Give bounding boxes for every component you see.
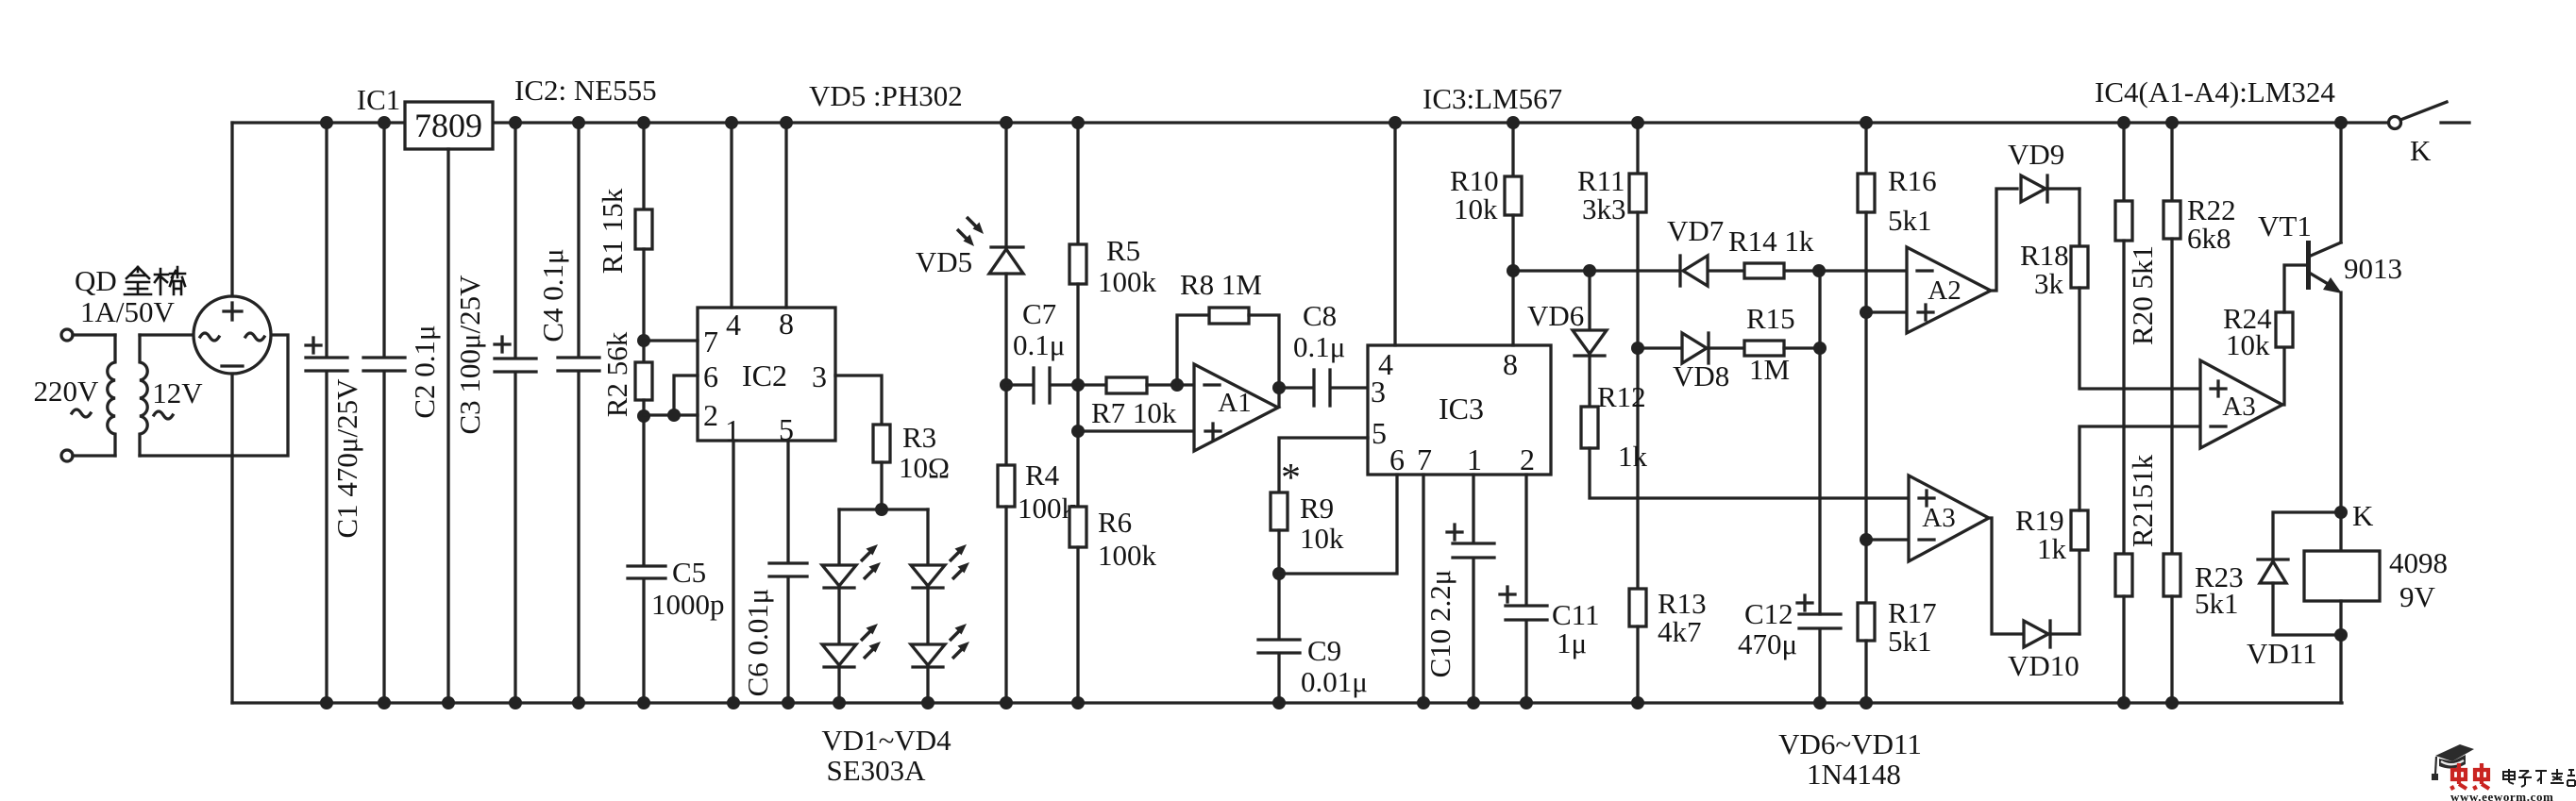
wire IC2 pin5 down: [786, 441, 789, 562]
LED VD2: [911, 509, 969, 588]
bridge tilde right: [245, 333, 264, 341]
node relay bottom: [2334, 628, 2348, 642]
IC3 LM567 box: [1368, 345, 1551, 476]
svg-text:C9: C9: [1307, 634, 1341, 667]
capacitor C1: [306, 116, 363, 709]
svg-text:7: 7: [1417, 442, 1432, 476]
svg-text:8: 8: [1503, 347, 1518, 381]
svg-text:0.1μ: 0.1μ: [1013, 328, 1065, 361]
wire A3 minus input: [1866, 538, 1909, 541]
svg-text:12V: 12V: [152, 376, 203, 409]
diode VD9: [2008, 138, 2079, 202]
watermark site name glyphs: [2503, 769, 2575, 787]
wire LED top bus: [839, 508, 928, 510]
svg-text:8: 8: [779, 307, 794, 341]
svg-text:R3: R3: [902, 421, 936, 454]
node pin2 pin6 tie: [667, 409, 681, 422]
svg-text:R2151k: R2151k: [2126, 454, 2159, 547]
node A3 minus ref: [1860, 533, 1873, 546]
svg-text:R12: R12: [1597, 380, 1646, 413]
svg-text:1μ: 1μ: [1557, 626, 1587, 659]
LED VD1: [822, 509, 881, 588]
capacitor C11 1u on pin2: [1500, 475, 1600, 709]
node R5 C7 R7: [1071, 378, 1085, 392]
resistor R14 1k: [1728, 225, 1814, 278]
node A1 output: [1272, 381, 1286, 394]
svg-text:10Ω: 10Ω: [899, 451, 950, 484]
svg-text:R8 1M: R8 1M: [1180, 268, 1262, 301]
svg-text:C8: C8: [1303, 299, 1337, 332]
wire IC3 pin6: [1279, 475, 1397, 574]
svg-text:R6: R6: [1098, 506, 1132, 539]
svg-text:3: 3: [812, 359, 827, 393]
svg-text:3: 3: [1371, 375, 1386, 409]
capacitor C9 0.01u: [1258, 634, 1368, 709]
resistor R8 1M feedback: [1177, 268, 1279, 407]
svg-text:IC4(A1-A4):LM324: IC4(A1-A4):LM324: [2095, 75, 2335, 108]
svg-text:R5: R5: [1106, 234, 1140, 267]
node A1 plus tap: [1071, 425, 1085, 438]
LED VD4: [911, 590, 969, 709]
svg-text:A1: A1: [1218, 388, 1251, 418]
wire IC2 pin4 to rail: [730, 123, 732, 308]
diode VD11 flyback: [2247, 512, 2341, 670]
svg-text:C4 0.1μ: C4 0.1μ: [536, 248, 569, 342]
svg-text:A3: A3: [1922, 503, 1955, 533]
wire terminal bottom to primary: [73, 454, 115, 457]
wire detector line (pin8 node to A2 minus): [1513, 269, 1679, 272]
resistor R10 10k: [1450, 116, 1522, 345]
svg-text:1: 1: [1467, 442, 1482, 476]
resistor R3 10ohm: [873, 421, 950, 509]
svg-text:7: 7: [703, 325, 718, 359]
svg-text:R4: R4: [1025, 459, 1060, 492]
svg-text:C7: C7: [1022, 297, 1056, 330]
svg-text:IC3:LM567: IC3:LM567: [1423, 82, 1562, 115]
svg-text:VD11: VD11: [2247, 637, 2317, 670]
node pin7 junction: [637, 334, 650, 347]
svg-text:2: 2: [703, 398, 718, 432]
transformer T primary winding: [108, 335, 115, 456]
photodiode VD5: [916, 116, 1023, 385]
tilde under 12V: [154, 411, 173, 419]
svg-text:1M: 1M: [1749, 353, 1790, 386]
resistor R13 4k7: [1629, 587, 1707, 709]
watermark chongchong red glyphs: [2451, 763, 2489, 790]
svg-text:C5: C5: [672, 556, 706, 589]
svg-text:9013: 9013: [2344, 252, 2402, 285]
wire IC3 pin7 to ground: [1422, 475, 1424, 703]
diode VD7: [1667, 214, 1724, 286]
diode VD10: [2008, 621, 2079, 682]
svg-text:4: 4: [726, 308, 741, 342]
svg-text:6: 6: [1389, 442, 1405, 476]
top supply rail: [232, 121, 2389, 124]
svg-text:7809: 7809: [414, 107, 482, 144]
resistor R12 1k: [1581, 380, 1909, 498]
wire A2 plus input: [1866, 310, 1907, 313]
node R9 C9 pin6: [1272, 567, 1286, 580]
resistor R11 3k3: [1577, 116, 1646, 589]
resistor R19 1k: [2015, 426, 2200, 634]
resistor R2 56k: [600, 331, 652, 565]
svg-text:R14 1k: R14 1k: [1728, 225, 1814, 258]
bridge rectifier QD circle: [194, 296, 271, 374]
wire bridge minus down to ground rail: [230, 374, 233, 703]
wire IC3 pin4 to rail: [1393, 123, 1396, 345]
wire A2 output up: [1991, 189, 2017, 291]
svg-text:A2: A2: [1928, 275, 1961, 306]
wire detector sum column: [1818, 271, 1821, 614]
svg-text:0.01μ: 0.01μ: [1301, 665, 1368, 698]
svg-text:R2 56k: R2 56k: [600, 331, 633, 417]
bridge minus mark: [222, 364, 243, 367]
node R8 feedback left: [1170, 378, 1184, 392]
svg-text:VD5 :PH302: VD5 :PH302: [809, 79, 963, 112]
svg-text:10k: 10k: [1300, 522, 1344, 555]
op-amp A3 right: [2200, 360, 2282, 448]
IC2 NE555 box: [698, 307, 835, 447]
resistor R22 6k8: [2164, 116, 2236, 554]
wire IC3 pin5: [1279, 438, 1368, 492]
svg-text:6k8: 6k8: [2187, 222, 2231, 255]
resistor R6 100k: [1069, 506, 1157, 709]
svg-text:220V: 220V: [34, 375, 100, 408]
svg-text:C12: C12: [1744, 597, 1793, 630]
svg-text:K: K: [2352, 499, 2374, 532]
resistor R18 3k: [2020, 189, 2200, 389]
capacitor C8 0.1u: [1279, 299, 1368, 406]
resistor R23 5k1: [2164, 554, 2244, 709]
bridge tilde left: [200, 333, 219, 341]
svg-text:0.1μ: 0.1μ: [1293, 330, 1345, 363]
svg-text:K: K: [2410, 134, 2432, 167]
wire IC2 pin2: [644, 413, 698, 416]
capacitor C4: [536, 116, 599, 709]
svg-text:VD9: VD9: [2008, 138, 2064, 171]
diode VD6: [1527, 264, 1607, 407]
svg-text:IC1: IC1: [357, 83, 401, 116]
capacitor C5 1000p: [628, 556, 725, 709]
svg-text:5k1: 5k1: [1888, 625, 1932, 658]
node R10 bottom: [1507, 264, 1520, 277]
svg-text:R15: R15: [1746, 302, 1795, 335]
resistor R9 10k: [1271, 457, 1344, 639]
svg-text:3k3: 3k3: [1582, 192, 1626, 225]
svg-text:5k1: 5k1: [2195, 587, 2239, 620]
terminal top: [61, 329, 73, 341]
resistor R17 5k1: [1858, 596, 1937, 709]
svg-text:C10 2.2μ: C10 2.2μ: [1423, 570, 1456, 678]
wire IC2 pin1 to ground: [732, 441, 734, 703]
svg-text:*: *: [1281, 457, 1301, 500]
svg-text:R16: R16: [1888, 164, 1937, 197]
svg-text:9V: 9V: [2399, 580, 2436, 613]
svg-text:R1 15k: R1 15k: [596, 188, 629, 274]
svg-text:5k1: 5k1: [1888, 204, 1932, 237]
node A2 plus ref: [1860, 306, 1873, 319]
svg-text:4098: 4098: [2389, 546, 2448, 579]
capacitor C7 0.1u: [1006, 297, 1078, 403]
resistor R7 10k: [1078, 377, 1194, 429]
resistor R16 5k1: [1858, 116, 1937, 603]
tilde under 220V: [72, 409, 91, 417]
resistor R1 15k: [596, 116, 652, 362]
wire IC2 pin7: [644, 339, 698, 342]
svg-text:C6 0.01μ: C6 0.01μ: [741, 589, 774, 697]
wire IC2 pin6 tie: [674, 375, 698, 415]
capacitor C12 470u: [1738, 595, 1841, 709]
op-amp A2: [1907, 247, 1991, 333]
node VD5 R4 C7: [1000, 378, 1013, 392]
resistor R15 1M: [1744, 302, 1820, 386]
watermark cap icon: [2432, 744, 2474, 780]
svg-text:VD6~VD11: VD6~VD11: [1778, 727, 1922, 760]
svg-text:R9: R9: [1300, 492, 1334, 525]
wire relay to ground rail: [2339, 635, 2342, 703]
svg-text:R20 5k1: R20 5k1: [2126, 245, 2159, 345]
svg-text:1N4148: 1N4148: [1807, 758, 1901, 791]
wire terminal top to primary: [73, 333, 115, 336]
svg-text:VT1: VT1: [2258, 209, 2312, 242]
svg-text:C1 470μ/25V: C1 470μ/25V: [330, 378, 363, 539]
resistor R4 100k: [998, 385, 1077, 709]
wire bridge plus up to rail: [230, 123, 233, 296]
resistor R21 51k: [2115, 454, 2159, 709]
wire A1 plus input: [1078, 429, 1194, 432]
resistor R20 5k1: [2115, 116, 2159, 554]
svg-text:QD: QD: [75, 264, 117, 297]
svg-text:VD5: VD5: [916, 245, 972, 278]
capacitor C6 0.01u: [741, 563, 807, 709]
wire A3 lower output down: [1989, 518, 2024, 634]
transistor VT1 9013: [2258, 116, 2402, 512]
node LED feed: [875, 503, 888, 516]
resistor R24 10k: [2223, 265, 2307, 405]
svg-text:470μ: 470μ: [1738, 627, 1797, 660]
node R11 VD8 line: [1631, 342, 1644, 355]
wire IC2 pin3 to R3: [835, 375, 882, 425]
svg-text:2: 2: [1520, 442, 1535, 476]
svg-text:5: 5: [1372, 416, 1387, 450]
wire secondary bottom loop to bridge right: [140, 335, 288, 456]
svg-text:VD1~VD4: VD1~VD4: [821, 724, 951, 757]
diode VD8: [1638, 333, 1744, 392]
svg-text:IC3: IC3: [1439, 392, 1484, 426]
svg-text:VD8: VD8: [1673, 359, 1729, 392]
svg-text:R7 10k: R7 10k: [1091, 396, 1177, 429]
svg-text:1A/50V: 1A/50V: [80, 295, 176, 328]
svg-text:VD10: VD10: [2008, 649, 2079, 682]
node R14 out: [1812, 264, 1826, 277]
svg-text:10k: 10k: [2226, 328, 2270, 361]
svg-text:SE303A: SE303A: [826, 754, 926, 787]
svg-text:100k: 100k: [1098, 265, 1157, 298]
svg-text:VD6: VD6: [1527, 299, 1584, 332]
node R15 out: [1813, 342, 1827, 355]
svg-text:IC2: IC2: [742, 359, 787, 392]
svg-text:A3: A3: [2222, 392, 2255, 422]
relay coil 4098: [2304, 512, 2448, 635]
bottom ground rail: [232, 701, 2342, 704]
capacitor C2: [363, 116, 441, 709]
svg-text:1k: 1k: [1618, 440, 1648, 473]
svg-text:1000p: 1000p: [651, 588, 725, 621]
svg-text:10k: 10k: [1454, 192, 1498, 225]
wire secondary top to bridge: [140, 333, 194, 336]
op-amp A1: [1194, 364, 1278, 451]
capacitor C3: [453, 116, 536, 709]
svg-text:100k: 100k: [1098, 539, 1157, 572]
svg-text:www.eeworm.com: www.eeworm.com: [2450, 790, 2553, 801]
svg-text:C2 0.1μ: C2 0.1μ: [408, 325, 441, 418]
svg-text:C3 100μ/25V: C3 100μ/25V: [453, 275, 486, 435]
regulator IC1 7809: [357, 83, 493, 709]
svg-text:5: 5: [779, 412, 794, 446]
wire IC2 pin8 to rail: [784, 123, 787, 308]
svg-text:VD7: VD7: [1667, 214, 1724, 247]
svg-text:4k7: 4k7: [1658, 615, 1702, 648]
svg-text:IC2: NE555: IC2: NE555: [514, 74, 657, 107]
node relay K contact: [2334, 506, 2348, 519]
transformer T secondary winding: [140, 335, 147, 456]
terminal bottom: [61, 450, 73, 461]
op-amp A3 lower: [1909, 476, 1989, 561]
svg-text:100k: 100k: [1018, 492, 1077, 525]
LED VD3: [822, 590, 881, 709]
bridge plus mark: [224, 303, 242, 320]
svg-text:3k: 3k: [2034, 267, 2064, 300]
svg-text:1k: 1k: [2037, 532, 2067, 565]
resistor R5 100k: [1069, 116, 1157, 507]
svg-text:6: 6: [703, 359, 718, 393]
switch K top: [2389, 102, 2470, 167]
capacitor C10 2.2u on pin1: [1423, 475, 1494, 709]
